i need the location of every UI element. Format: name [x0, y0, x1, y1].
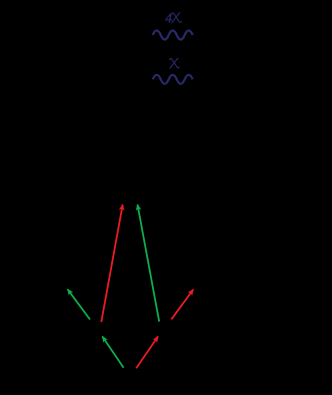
svg-text:4: 4: [165, 10, 172, 25]
